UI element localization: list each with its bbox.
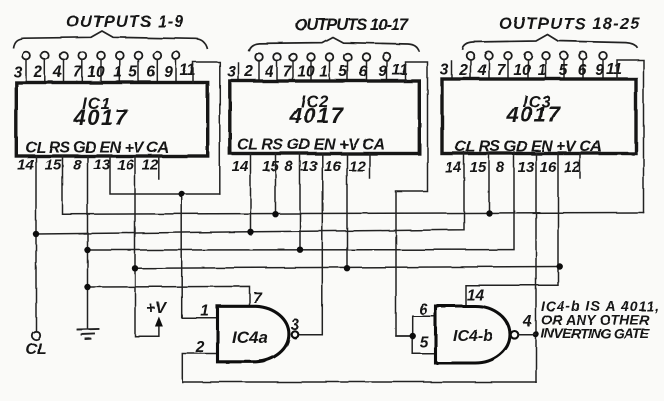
svg-text:14: 14 [466,287,484,304]
svg-text:4: 4 [522,314,532,331]
svg-text:IC4-b: IC4-b [453,328,493,345]
svg-text:14: 14 [232,158,249,175]
svg-text:9: 9 [164,64,173,81]
IC1 bottom pin numbers 14 15 8 13 16 12 [17,157,159,174]
svg-text:OUTPUTS 10-17: OUTPUTS 10-17 [295,16,409,34]
IC1 pin 11 cascade loop to bus A [193,62,220,194]
IC4-b pin labels 14 6 5 4 [419,287,533,352]
IC3 output pin stubs [452,60,603,79]
wire IC3 pin16 +V jog down to IC4-b pin 14 [466,153,559,305]
IC2 box [230,81,419,154]
svg-text:13: 13 [518,159,535,176]
svg-text:14: 14 [17,157,34,174]
svg-text:12: 12 [142,157,159,174]
IC1 output pin stubs [26,60,176,83]
IC4a output bubble [292,331,299,338]
ground [78,329,99,339]
IC3 output terminals (8 circles) [467,52,607,60]
wire IC2 pin 8 to bus D [299,154,301,250]
svg-text:6: 6 [578,62,587,79]
wire IC2 pin 16 to bus E [346,154,348,269]
wire bus A to IC4a pin 1 [182,194,216,318]
svg-text:2: 2 [195,339,205,356]
svg-text:9: 9 [379,64,388,81]
brace outputs 18-25 [462,35,638,50]
IC3 bottom pin numbers [445,159,581,176]
svg-text:9: 9 [595,62,604,79]
bus A: IC1 pin13 to IC1 pin11, tap to IC4a pin1 [110,156,220,194]
svg-text:14: 14 [445,159,462,176]
svg-text:10: 10 [297,64,315,81]
brace outputs 1-9 [13,31,207,49]
wire IC4a pin 2 from gate to bottom run [182,354,536,383]
svg-text:16: 16 [117,157,134,174]
svg-text:4017: 4017 [73,105,129,130]
wire IC3 pin 13 to IC4-b output and IC4a pin 2 run [535,153,537,382]
svg-text:11: 11 [606,61,622,78]
IC2 bottom pin numbers [232,158,366,175]
svg-text:5: 5 [559,62,568,79]
svg-text:6: 6 [147,64,156,81]
svg-text:5: 5 [129,64,138,81]
svg-text:7: 7 [253,290,263,307]
svg-text:5: 5 [339,64,348,81]
svg-text:8: 8 [496,159,505,176]
svg-text:12: 12 [349,158,366,175]
svg-text:13: 13 [301,158,318,175]
svg-text:1: 1 [319,64,328,81]
svg-text:CL RS GD EN +V CA: CL RS GD EN +V CA [237,137,385,154]
svg-text:4017: 4017 [289,103,345,128]
CL input terminal [32,331,40,339]
IC2 pin 12 stub [369,154,371,179]
svg-text:4: 4 [52,64,62,81]
bus E +V line: IC1p16-IC2p16-IC3p16 [135,267,560,269]
IC2 top pin numbers [227,62,408,81]
IC4-b output bubble [511,331,519,339]
svg-text:OUTPUTS 1-9: OUTPUTS 1-9 [66,13,184,31]
svg-text:10: 10 [513,62,531,79]
svg-text:13: 13 [94,157,111,174]
nand gate IC4-b [436,306,511,363]
IC4a pin labels 7 1 2 3 [195,290,300,356]
nand gate IC4a [218,306,289,362]
svg-text:CL RS GD EN +V CA: CL RS GD EN +V CA [25,140,169,157]
svg-text:15: 15 [45,157,62,174]
svg-text:8: 8 [73,157,82,174]
bus C clock line: CL to IC2p14 and IC3p14 [36,152,464,234]
bus B reset line IC1p15-IC2p15-IC3p15-IC3p11 [63,156,644,214]
IC3 box [442,79,636,154]
IC3 top pin numbers [440,61,622,79]
svg-text:16: 16 [540,159,557,176]
IC2 pin 11 cascade wire to IC4-b inputs [396,62,428,336]
wire IC1 pin 8 to ground [87,156,89,329]
svg-text:7: 7 [73,64,83,81]
bus F ground to IC4a pin 7 [88,286,250,304]
svg-text:15: 15 [262,158,279,175]
wire IC2 pin13 / IC4a output [299,154,322,335]
svg-text:12: 12 [564,159,581,176]
svg-text:OUTPUTS 18-25: OUTPUTS 18-25 [499,15,640,33]
svg-text:10: 10 [87,64,105,81]
IC2 output terminals (8 circles) [255,53,391,61]
wire IC1 pin16 to +V arrow [135,156,159,336]
svg-text:3: 3 [227,64,236,81]
IC1 box [16,83,207,157]
svg-text:3: 3 [13,64,22,81]
svg-text:1: 1 [538,62,547,79]
wire IC2 pin 15 to bus B [275,154,277,215]
+V arrowhead [155,317,163,327]
svg-text:1: 1 [200,303,209,320]
svg-text:6: 6 [359,64,368,81]
wire IC2 pin 14 to bus C [250,154,252,232]
IC1 top pin numbers 3 2 4 7 10 1 5 6 9 11 [13,62,195,81]
svg-text:15: 15 [470,159,487,176]
svg-text:3: 3 [291,317,300,334]
IC1 output terminals (9 circles) [22,52,180,60]
IC3 pin 11 cascade wire to reset bus B [617,60,644,213]
svg-text:4: 4 [264,64,274,81]
svg-text:4: 4 [477,62,487,79]
brace outputs 10-17 [249,37,420,51]
bus D ground line: IC1p8-IC2p8-IC3p8 [88,152,515,250]
IC2 output pin stubs [239,61,388,81]
svg-text:CL: CL [25,341,46,358]
svg-text:INVERTING GATE: INVERTING GATE [541,325,650,341]
svg-text:7: 7 [283,64,293,81]
svg-text:7: 7 [497,62,507,79]
wire CL input to IC1 pin 14 [35,156,37,331]
svg-text:16: 16 [324,158,341,175]
IC3 pin 12 stub [579,153,581,178]
svg-text:+V: +V [146,300,167,317]
svg-text:5: 5 [420,335,429,352]
IC4-b output wire [519,334,536,336]
svg-text:1: 1 [114,64,123,81]
svg-text:2: 2 [244,64,254,81]
svg-text:4017: 4017 [506,102,562,127]
svg-text:6: 6 [419,302,428,319]
svg-text:2: 2 [33,64,43,81]
wire IC3 pin 15 to bus B [488,153,490,213]
svg-text:2: 2 [458,62,468,79]
svg-text:IC4a: IC4a [232,328,268,347]
IC1 pin 12 stub [158,156,160,179]
svg-text:3: 3 [440,62,449,79]
svg-text:8: 8 [284,158,293,175]
wire IC4-b tied inputs 5 and 6 [396,316,434,354]
